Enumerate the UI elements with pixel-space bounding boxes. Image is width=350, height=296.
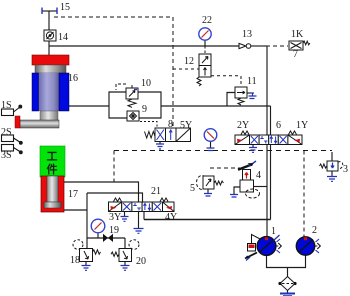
svg-text:2Y: 2Y (237, 120, 249, 131)
svg-text:15: 15 (60, 2, 70, 13)
svg-text:3: 3 (343, 164, 348, 175)
svg-text:1: 1 (271, 226, 276, 237)
svg-text:12: 12 (184, 56, 194, 67)
svg-text:1K: 1K (291, 29, 304, 40)
svg-text:件: 件 (47, 162, 58, 176)
svg-text:3Y: 3Y (109, 212, 121, 223)
svg-text:8: 8 (168, 119, 173, 130)
svg-text:10: 10 (141, 78, 151, 89)
svg-text:1S: 1S (1, 100, 12, 111)
svg-text:5: 5 (190, 183, 195, 194)
svg-text:20: 20 (136, 256, 146, 267)
svg-text:17: 17 (68, 189, 78, 200)
svg-text:14: 14 (58, 32, 68, 43)
svg-text:6: 6 (276, 120, 281, 131)
svg-text:11: 11 (247, 76, 257, 87)
svg-text:18: 18 (70, 255, 80, 266)
svg-text:2: 2 (312, 225, 317, 236)
svg-text:4Y: 4Y (165, 212, 177, 223)
svg-text:16: 16 (68, 73, 78, 84)
svg-text:9: 9 (142, 104, 147, 115)
svg-text:13: 13 (242, 29, 252, 40)
svg-text:工: 工 (47, 150, 58, 163)
svg-text:3S: 3S (1, 150, 12, 161)
svg-text:2S: 2S (1, 127, 12, 138)
svg-text:22: 22 (202, 15, 212, 26)
svg-text:21: 21 (151, 186, 161, 197)
svg-text:4: 4 (256, 170, 261, 181)
svg-text:7: 7 (293, 49, 298, 60)
svg-text:5Y: 5Y (180, 120, 192, 131)
svg-text:1Y: 1Y (296, 120, 308, 131)
svg-text:19: 19 (109, 225, 119, 236)
